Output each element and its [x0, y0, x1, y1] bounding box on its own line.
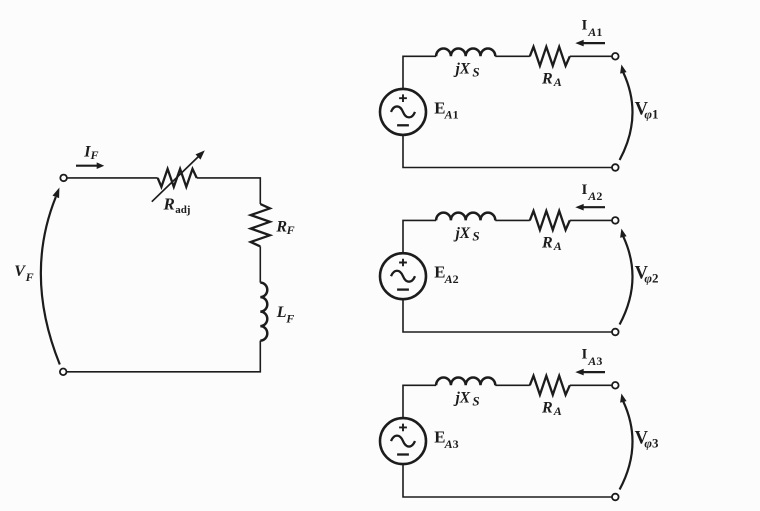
- wire source to bottom: [403, 135, 612, 168]
- svg-text:A: A: [553, 404, 562, 418]
- svg-text:φ2: φ2: [644, 271, 658, 286]
- phase 3 circuit: [380, 347, 659, 501]
- svg-text:φ1: φ1: [644, 107, 658, 122]
- voltage arc V_phi2: [620, 237, 633, 325]
- wire rheostat to R_F: [197, 178, 261, 204]
- svg-text:S: S: [472, 394, 479, 409]
- wire resistor to terminal: [570, 55, 612, 57]
- wire source to top: [403, 220, 436, 253]
- rheostat arrow: [152, 157, 199, 202]
- svg-text:F: F: [90, 148, 99, 162]
- source E_A1: [380, 89, 426, 135]
- source E_A2: [380, 253, 426, 299]
- svg-text:A: A: [553, 239, 562, 253]
- svg-text:V: V: [14, 263, 26, 280]
- inductor jX_S (phase 3): [436, 377, 495, 385]
- svg-text:R: R: [275, 219, 287, 236]
- wire source to top: [403, 385, 436, 418]
- resistor R_A (phase 1): [530, 47, 570, 66]
- svg-text:S: S: [472, 65, 479, 80]
- svg-text:R: R: [541, 71, 553, 88]
- svg-text:jX: jX: [453, 390, 471, 407]
- source E_A3: [380, 418, 426, 464]
- wire top-left to rheostat: [67, 177, 158, 179]
- wire source to bottom: [403, 464, 612, 497]
- svg-text:R: R: [163, 194, 175, 213]
- terminal phase 3 top-right: [612, 382, 619, 389]
- svg-text:F: F: [285, 312, 294, 326]
- svg-text:A3: A3: [587, 354, 602, 368]
- resistor R_F: [251, 204, 270, 246]
- wire L_F to bottom-left: [67, 341, 260, 372]
- svg-text:φ3: φ3: [644, 436, 659, 451]
- terminal phase 2 top-right: [612, 217, 619, 224]
- svg-text:A1: A1: [444, 108, 459, 122]
- svg-text:A2: A2: [444, 272, 459, 286]
- resistor R_A (phase 3): [530, 376, 570, 395]
- rheostat R_adj: [158, 169, 197, 187]
- wire source to top: [403, 56, 436, 89]
- voltage arc V_phi1: [620, 73, 633, 161]
- svg-text:A2: A2: [587, 189, 602, 203]
- inductor L_F: [260, 283, 267, 341]
- terminal phase 1 top-right: [612, 53, 619, 60]
- svg-text:jX: jX: [453, 225, 471, 242]
- svg-text:A3: A3: [444, 437, 459, 451]
- svg-text:R: R: [541, 400, 553, 417]
- svg-text:F: F: [286, 223, 295, 237]
- current arrow I_A3: [579, 371, 606, 373]
- terminal phase 2 bottom-right: [612, 329, 619, 336]
- svg-text:A: A: [553, 75, 562, 89]
- svg-text:I: I: [582, 182, 588, 198]
- current arrow I_A1: [579, 42, 606, 44]
- inductor jX_S (phase 2): [436, 213, 495, 221]
- field circuit: [14, 144, 294, 376]
- inductor jX_S (phase 1): [436, 48, 495, 56]
- svg-text:F: F: [25, 270, 34, 284]
- phase 1 circuit: [380, 18, 659, 171]
- svg-text:I: I: [582, 18, 588, 34]
- svg-text:L: L: [276, 304, 287, 321]
- wire coil to resistor: [495, 219, 530, 221]
- svg-text:I: I: [582, 347, 588, 363]
- terminal field top-left: [60, 175, 67, 182]
- wire coil to resistor: [495, 55, 530, 57]
- terminal field bottom-left: [60, 369, 67, 376]
- current arrow I_F: [76, 165, 98, 167]
- resistor R_A (phase 2): [530, 211, 570, 230]
- svg-text:adj: adj: [175, 204, 190, 216]
- phase 2 circuit: [380, 182, 659, 336]
- terminal phase 3 bottom-right: [612, 494, 619, 501]
- terminal phase 1 bottom-right: [612, 164, 619, 171]
- wire resistor to terminal: [570, 384, 612, 386]
- svg-text:A1: A1: [587, 25, 602, 39]
- current arrow I_A2: [579, 206, 606, 208]
- svg-text:S: S: [472, 229, 479, 244]
- voltage arc V_phi3: [620, 402, 633, 490]
- wire resistor to terminal: [570, 219, 612, 221]
- svg-text:jX: jX: [453, 61, 471, 78]
- svg-text:R: R: [541, 235, 553, 252]
- voltage arc V_F: [41, 197, 60, 365]
- wire coil to resistor: [495, 384, 530, 386]
- wire R_F to L_F: [259, 246, 261, 282]
- wire source to bottom: [403, 299, 612, 332]
